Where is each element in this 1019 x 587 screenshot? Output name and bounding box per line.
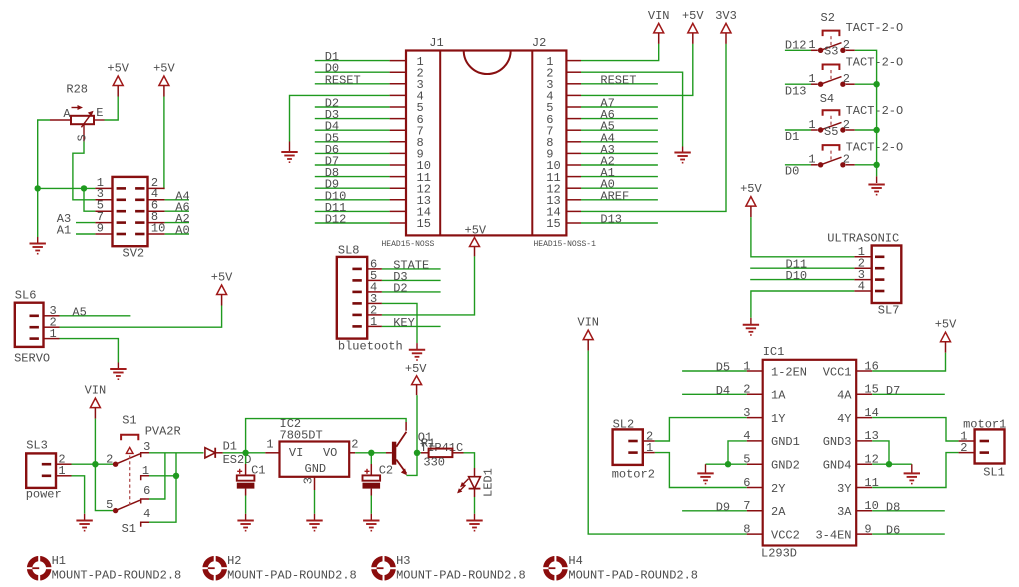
svg-text:D6: D6 xyxy=(886,524,900,538)
label HEAD15-NOSS-1 xyxy=(534,240,597,249)
VIN supply P9 (S1) xyxy=(85,384,107,419)
voltage regulator IC2 7805DT xyxy=(266,437,358,490)
label S1 bottom xyxy=(122,522,136,536)
svg-text:D1: D1 xyxy=(785,130,799,144)
junction node A-net xyxy=(35,185,41,191)
wire J2 pin4 to +5V xyxy=(581,44,693,96)
junction switch bus row2 xyxy=(873,81,879,87)
svg-text:3A: 3A xyxy=(837,505,852,519)
svg-text:VIN: VIN xyxy=(648,9,670,23)
net A3 wire xyxy=(57,212,96,226)
svg-text:C2: C2 xyxy=(379,463,393,477)
wire IC1 1Y to SL2 pin2 xyxy=(655,418,747,441)
label power xyxy=(26,488,62,502)
net D11 wire to SL7 pin2 xyxy=(750,258,854,272)
net D3 wire SL8 pin5 xyxy=(382,270,441,284)
net A0 wire from J2 pin 12 xyxy=(581,178,658,192)
svg-text:3Y: 3Y xyxy=(837,482,851,496)
svg-text:GND: GND xyxy=(305,462,327,476)
wire S1 pin3 to pin6 xyxy=(149,453,165,499)
svg-text:GND1: GND1 xyxy=(771,435,800,449)
svg-text:D7: D7 xyxy=(886,384,900,398)
svg-text:3-4EN: 3-4EN xyxy=(815,528,851,542)
net D3 wire to J1 pin 6 xyxy=(315,108,390,122)
svg-text:+5V: +5V xyxy=(682,9,704,23)
wire J2 pin14 to 3V3 xyxy=(581,44,726,212)
svg-text:S1: S1 xyxy=(122,522,136,536)
net A4 wire from J2 pin 8 xyxy=(581,131,658,145)
net D4 wire to J1 pin 7 xyxy=(315,120,390,134)
junction switch bus row3 xyxy=(873,127,879,133)
mount pad H2 xyxy=(202,554,357,582)
potentiometer R28 label xyxy=(66,83,88,97)
ground G4 (switch bus) xyxy=(868,185,884,195)
net A7 wire from J2 pin 5 xyxy=(581,97,658,111)
value PVA2R xyxy=(145,424,181,438)
pin header SL8 xyxy=(337,257,382,339)
svg-text:GND4: GND4 xyxy=(823,459,852,473)
label J1 xyxy=(429,36,443,50)
svg-text:MOUNT-PAD-ROUND2.8: MOUNT-PAD-ROUND2.8 xyxy=(396,569,526,583)
svg-text:D9: D9 xyxy=(716,500,730,514)
svg-text:KEY: KEY xyxy=(393,316,415,330)
net A6 wire xyxy=(165,201,190,215)
diode D1 ES2D xyxy=(205,448,223,458)
LED LED1 xyxy=(457,468,480,497)
svg-text:2: 2 xyxy=(843,38,850,52)
label SL2 xyxy=(613,418,635,432)
svg-text:+5V: +5V xyxy=(935,318,957,332)
svg-text:1: 1 xyxy=(50,327,57,341)
label HEAD15-NOSS xyxy=(382,240,435,249)
net D2 wire SL8 pin4 xyxy=(382,281,441,295)
potentiometer R28 xyxy=(50,105,105,142)
ground G7 (SL7 pin4) xyxy=(743,325,759,335)
svg-text:+5V: +5V xyxy=(107,62,129,76)
net A3 wire from J2 pin 9 xyxy=(581,143,658,157)
mount pad H1 xyxy=(26,554,181,582)
label IC2 xyxy=(280,417,302,431)
wire IC2 VO to C2 node and Q1 base xyxy=(355,452,392,454)
ground G13 (C2) xyxy=(363,521,379,531)
switch bus wire to ground xyxy=(855,50,877,183)
svg-text:4: 4 xyxy=(858,279,865,293)
ground G14 (LED1) xyxy=(466,521,482,531)
svg-text:+5V: +5V xyxy=(740,182,762,196)
value 7805DT xyxy=(280,429,323,443)
svg-text:8: 8 xyxy=(743,522,750,536)
net A6 wire from J2 pin 6 xyxy=(581,108,658,122)
pin header SV2 xyxy=(95,176,165,246)
label Q1 xyxy=(418,431,432,445)
pin header J1/J2 HEAD15 block xyxy=(406,51,566,236)
svg-text:D4: D4 xyxy=(716,384,730,398)
pin header SL3 xyxy=(26,453,71,488)
wire IC1 3Y to SL1 pin2 xyxy=(872,453,958,488)
svg-text:SL1: SL1 xyxy=(983,465,1005,479)
+5V supply P8 (SL6) xyxy=(211,271,233,306)
wire D1 to IC2 VI node xyxy=(223,452,280,454)
ground G1 xyxy=(30,244,46,254)
net KEY wire SL8 pin1 xyxy=(382,316,441,330)
net D11 wire to J1 pin 14 xyxy=(315,201,390,215)
svg-text:J1: J1 xyxy=(429,36,443,50)
svg-text:15: 15 xyxy=(546,217,560,231)
junction VI node xyxy=(242,450,248,456)
svg-text:S5: S5 xyxy=(824,125,838,139)
label motor1 xyxy=(963,417,1006,431)
pin header SL1 xyxy=(959,429,1005,463)
net A1 wire from J2 pin 11 xyxy=(581,166,658,180)
wire S1 pin1 xyxy=(149,475,176,477)
ground G8 (IC1 GND1/2) xyxy=(697,473,713,483)
net D6 wire to J1 pin 9 xyxy=(315,143,390,157)
net D13 wire from J2 pin 15 xyxy=(581,213,658,227)
pin header SL7 xyxy=(854,245,901,303)
net D0 wire to J1 pin 2 xyxy=(315,62,390,76)
net D1 wire to J1 pin 1 xyxy=(315,50,390,64)
svg-text:R28: R28 xyxy=(66,83,88,97)
svg-text:TACT-2-O: TACT-2-O xyxy=(846,104,904,118)
wire SL3 pin1 to ground xyxy=(72,476,85,520)
svg-text:D1: D1 xyxy=(223,439,237,453)
wire E pin to +5V xyxy=(105,97,119,121)
value ES2D xyxy=(223,453,252,467)
label J2 xyxy=(532,36,546,50)
svg-text:1Y: 1Y xyxy=(771,412,785,426)
label R1 xyxy=(421,436,435,450)
ground G5 (SL8 pin3) xyxy=(409,350,425,360)
svg-text:D12: D12 xyxy=(785,39,807,53)
label D1 xyxy=(223,439,237,453)
svg-text:VI: VI xyxy=(289,446,303,460)
+5V supply P1 (R28 E) xyxy=(107,62,129,97)
svg-text:MOUNT-PAD-ROUND2.8: MOUNT-PAD-ROUND2.8 xyxy=(568,569,698,583)
label ULTRASONIC xyxy=(827,231,899,245)
ground G10 (SL3 pin1) xyxy=(76,521,92,531)
value 330 xyxy=(423,455,445,469)
svg-text:D0: D0 xyxy=(785,165,799,179)
svg-text:D5: D5 xyxy=(716,361,730,375)
wire IC1 4Y to SL1 pin1 xyxy=(872,418,958,441)
svg-text:+5V: +5V xyxy=(465,224,487,238)
+5V supply P12 (Q1) xyxy=(405,362,427,395)
transistor Q1 TIP41C xyxy=(392,432,407,476)
J2 pin stubs and numbers xyxy=(546,55,581,231)
svg-text:SL8: SL8 xyxy=(338,244,360,258)
svg-text:S: S xyxy=(76,134,90,141)
svg-text:D2: D2 xyxy=(393,281,407,295)
label C1 xyxy=(251,463,265,477)
ground G9 (IC1 GND3/4) xyxy=(904,473,920,483)
svg-text:GND3: GND3 xyxy=(823,435,852,449)
net A5 wire SL6 pin3 xyxy=(60,305,131,319)
net D5 wire to J1 pin 8 xyxy=(315,131,390,145)
net RESET wire to J1 pin 3 xyxy=(315,73,390,87)
junction R1 node xyxy=(414,450,420,456)
net A2 wire from J2 pin 10 xyxy=(581,155,658,169)
svg-text:+5V: +5V xyxy=(211,271,233,285)
svg-text:A0: A0 xyxy=(175,224,189,238)
wire +5V to SL7 pin1 xyxy=(751,217,854,257)
svg-text:MOUNT-PAD-ROUND2.8: MOUNT-PAD-ROUND2.8 xyxy=(227,569,357,583)
wire IC2 GND to ground xyxy=(314,490,316,520)
svg-text:1: 1 xyxy=(808,118,815,132)
junction S1 pin1 node xyxy=(173,473,179,479)
mount pad H3 xyxy=(371,554,526,582)
wire SL8 pin3 to ground xyxy=(382,303,417,349)
svg-text:SL6: SL6 xyxy=(15,289,37,303)
wire SL3 pin2 to VIN node and S1 contact 2 xyxy=(72,463,114,465)
pin header SL2 xyxy=(613,429,655,465)
svg-text:PVA2R: PVA2R xyxy=(145,424,181,438)
svg-text:330: 330 xyxy=(423,455,445,469)
wire Q1 emitter to +5V node xyxy=(406,453,417,476)
motor driver IC1 L293D xyxy=(743,359,879,545)
svg-text:3: 3 xyxy=(302,477,316,484)
svg-text:bluetooth: bluetooth xyxy=(338,340,403,354)
svg-text:SV2: SV2 xyxy=(123,247,145,261)
net D7 wire to J1 pin 10 xyxy=(315,155,390,169)
svg-text:2A: 2A xyxy=(771,505,786,519)
svg-text:2: 2 xyxy=(843,72,850,86)
ground G11 (C1) xyxy=(237,521,253,531)
3V3 supply P5 xyxy=(715,9,737,44)
net AREF wire from J2 pin 13 xyxy=(581,189,658,203)
svg-text:AREF: AREF xyxy=(600,189,629,203)
wire IC1 VCC1 to +5V xyxy=(872,353,945,371)
label SV2 xyxy=(123,247,145,261)
wire R1 to LED1 xyxy=(464,453,475,468)
svg-text:2: 2 xyxy=(960,441,967,455)
svg-text:A1: A1 xyxy=(57,224,71,238)
svg-text:TACT-2-O: TACT-2-O xyxy=(846,140,904,154)
junction GND node right xyxy=(886,461,892,467)
wire +5V to SV2 pin2 xyxy=(163,97,166,189)
net D10 wire to SL7 pin3 xyxy=(750,269,854,283)
svg-text:S3: S3 xyxy=(824,45,838,59)
label bluetooth xyxy=(338,340,403,354)
svg-text:D12: D12 xyxy=(325,213,347,227)
ground G12 (IC2 GND) xyxy=(306,521,322,531)
J1 pin stubs and numbers xyxy=(390,55,431,231)
svg-text:VCC2: VCC2 xyxy=(771,528,800,542)
net D4 wire IC1 pin2 xyxy=(682,384,747,398)
net A4 wire xyxy=(165,189,190,203)
net D9 wire to J1 pin 12 xyxy=(315,178,390,192)
svg-text:9: 9 xyxy=(97,221,104,235)
net A2 wire xyxy=(165,212,190,226)
svg-text:VCC1: VCC1 xyxy=(823,365,852,379)
svg-text:D8: D8 xyxy=(886,500,900,514)
svg-text:HEAD15-NOSS: HEAD15-NOSS xyxy=(382,240,435,249)
wire S1 pin1 to pin4 vertical xyxy=(149,453,176,522)
svg-text:1: 1 xyxy=(808,38,815,52)
label IC1 xyxy=(763,345,785,359)
svg-text:1: 1 xyxy=(646,441,653,455)
svg-text:D13: D13 xyxy=(785,84,807,98)
svg-text:H1: H1 xyxy=(52,554,66,568)
svg-text:4Y: 4Y xyxy=(837,412,851,426)
svg-text:TACT-2-O: TACT-2-O xyxy=(846,21,904,35)
net D10 wire to J1 pin 13 xyxy=(315,189,390,203)
wire VIN node down to S1 contact 5 xyxy=(95,464,113,510)
resistor R1 330 xyxy=(417,449,464,458)
svg-text:motor2: motor2 xyxy=(612,467,655,481)
svg-text:RESET: RESET xyxy=(600,73,636,87)
label motor2 xyxy=(612,467,655,481)
svg-text:15: 15 xyxy=(417,217,431,231)
mount pad H4 xyxy=(542,554,698,582)
wire IC1 2Y to SL2 pin1 xyxy=(655,453,747,488)
svg-text:H3: H3 xyxy=(396,554,410,568)
wire VI node up to top rail and to Q1 collector xyxy=(246,419,407,453)
svg-text:2: 2 xyxy=(843,118,850,132)
junction switch bus row4 xyxy=(873,162,879,168)
label SL7 xyxy=(878,304,900,318)
wire J2 pin2 to ground xyxy=(581,72,683,152)
ground G2 (J1 pin4) xyxy=(281,152,297,162)
value TIP41C xyxy=(420,441,463,455)
svg-text:H4: H4 xyxy=(568,554,582,568)
wire VIN to IC1 VCC2 xyxy=(588,351,747,534)
wire S1 pin3 rail to diode D1 xyxy=(149,452,204,454)
svg-text:HEAD15-NOSS-1: HEAD15-NOSS-1 xyxy=(534,240,597,249)
net D2 wire to J1 pin 5 xyxy=(315,97,390,111)
svg-text:1: 1 xyxy=(142,464,149,478)
svg-text:2: 2 xyxy=(351,437,358,451)
svg-text:4: 4 xyxy=(143,507,150,521)
svg-text:1: 1 xyxy=(808,72,815,86)
net A1 wire xyxy=(57,224,96,238)
wire VIN down to node xyxy=(94,419,96,465)
label SL1 xyxy=(983,465,1005,479)
svg-text:10: 10 xyxy=(151,221,165,235)
wire IC1 GND3/GND4 to ground xyxy=(872,441,912,473)
wire J1 pin4 to ground xyxy=(290,95,390,151)
svg-text:1-2EN: 1-2EN xyxy=(771,365,807,379)
svg-text:D13: D13 xyxy=(600,213,622,227)
VIN supply P3 xyxy=(648,9,670,44)
svg-text:9: 9 xyxy=(864,522,871,536)
net STATE wire SL8 pin6 xyxy=(382,258,441,272)
tact switch S4 with value TACT-2-O xyxy=(785,92,903,144)
value L293D xyxy=(761,546,797,560)
svg-text:RESET: RESET xyxy=(325,73,361,87)
net RESET wire from J2 pin 3 xyxy=(581,73,658,87)
svg-text:LED1: LED1 xyxy=(482,468,496,497)
svg-text:L293D: L293D xyxy=(761,546,797,560)
wire LED1 to ground xyxy=(474,497,476,520)
label LED1 xyxy=(482,468,496,497)
VIN supply P10 (IC1) xyxy=(577,316,599,351)
+5V supply P4 xyxy=(682,9,704,44)
+5V supply P11 (IC1 VCC1) xyxy=(935,318,957,353)
capacitor C1 xyxy=(237,453,255,520)
svg-text:5: 5 xyxy=(106,498,113,512)
wire SL7 pin4 to ground xyxy=(751,291,854,324)
svg-text:3V3: 3V3 xyxy=(715,9,737,23)
svg-text:J2: J2 xyxy=(532,36,546,50)
svg-text:S1: S1 xyxy=(122,414,136,428)
svg-text:ULTRASONIC: ULTRASONIC xyxy=(827,231,899,245)
junction node pin1/pin5 branch xyxy=(81,185,87,191)
svg-text:S2: S2 xyxy=(821,11,835,25)
wire +5V down to R1 node xyxy=(416,395,418,453)
svg-text:2Y: 2Y xyxy=(771,482,785,496)
net D12 wire to J1 pin 15 xyxy=(315,213,390,227)
net A0 wire xyxy=(165,224,190,238)
+5V supply P6 (below J1) xyxy=(465,224,487,257)
label SERVO xyxy=(14,352,50,366)
label C2 xyxy=(379,463,393,477)
ground G6 (SL6 pin1) xyxy=(110,369,126,379)
svg-text:GND2: GND2 xyxy=(771,459,800,473)
net D9 wire IC1 pin7 xyxy=(682,500,747,514)
tact switch S5 with value TACT-2-O xyxy=(785,125,903,179)
svg-text:1: 1 xyxy=(808,153,815,167)
+5V supply P7 (SL7) xyxy=(740,182,762,217)
svg-text:1: 1 xyxy=(370,315,377,329)
wire branch to SV2 pin5 xyxy=(84,188,95,211)
svg-text:H2: H2 xyxy=(227,554,241,568)
wire IC1 GND1/GND2 to ground xyxy=(706,441,747,473)
net D7 wire IC1 pin15 xyxy=(872,384,945,398)
wire SL6 pin2 to +5V xyxy=(60,306,222,328)
svg-text:2: 2 xyxy=(106,453,113,467)
svg-text:SERVO: SERVO xyxy=(14,352,50,366)
svg-text:1A: 1A xyxy=(771,389,786,403)
+5V supply P2 (SV2 pin2) xyxy=(153,62,175,97)
svg-text:power: power xyxy=(26,488,62,502)
svg-text:C1: C1 xyxy=(251,463,265,477)
svg-text:VIN: VIN xyxy=(577,316,599,330)
label SL6 xyxy=(15,289,37,303)
wire R28 A to ground and SV2 pin1 xyxy=(38,120,96,244)
svg-text:VIN: VIN xyxy=(85,384,107,398)
tact switch S2 with value TACT-2-O xyxy=(785,11,903,53)
capacitor C2 xyxy=(363,453,381,520)
junction VO node xyxy=(368,450,374,456)
tact switch S3 with value TACT-2-O xyxy=(785,45,903,99)
junction GND node left xyxy=(725,461,731,467)
label SL3 xyxy=(26,439,48,453)
junction VIN node xyxy=(92,461,98,467)
svg-text:+5V: +5V xyxy=(405,362,427,376)
svg-text:SL7: SL7 xyxy=(878,304,900,318)
svg-text:2: 2 xyxy=(843,153,850,167)
svg-text:+5V: +5V xyxy=(153,62,175,76)
net D6 wire IC1 pin9 xyxy=(872,524,945,538)
net D8 wire to J1 pin 11 xyxy=(315,166,390,180)
svg-text:E: E xyxy=(96,106,103,120)
switch S1 PVA2R xyxy=(106,435,150,527)
label S1 top xyxy=(122,414,136,428)
wire SL6 pin1 to ground xyxy=(60,339,119,369)
svg-text:A5: A5 xyxy=(72,305,86,319)
net D8 wire IC1 pin10 xyxy=(872,500,945,514)
net D5 wire IC1 pin1 xyxy=(682,361,747,375)
svg-text:MOUNT-PAD-ROUND2.8: MOUNT-PAD-ROUND2.8 xyxy=(52,569,182,583)
wire +5V to SL8 pin2 xyxy=(382,256,475,315)
svg-text:D10: D10 xyxy=(786,269,808,283)
pin header SL6 xyxy=(15,303,60,347)
svg-text:1: 1 xyxy=(58,464,65,478)
svg-text:IC1: IC1 xyxy=(763,345,785,359)
svg-text:S4: S4 xyxy=(820,92,834,106)
svg-text:A: A xyxy=(63,107,71,121)
svg-text:1: 1 xyxy=(266,437,273,451)
